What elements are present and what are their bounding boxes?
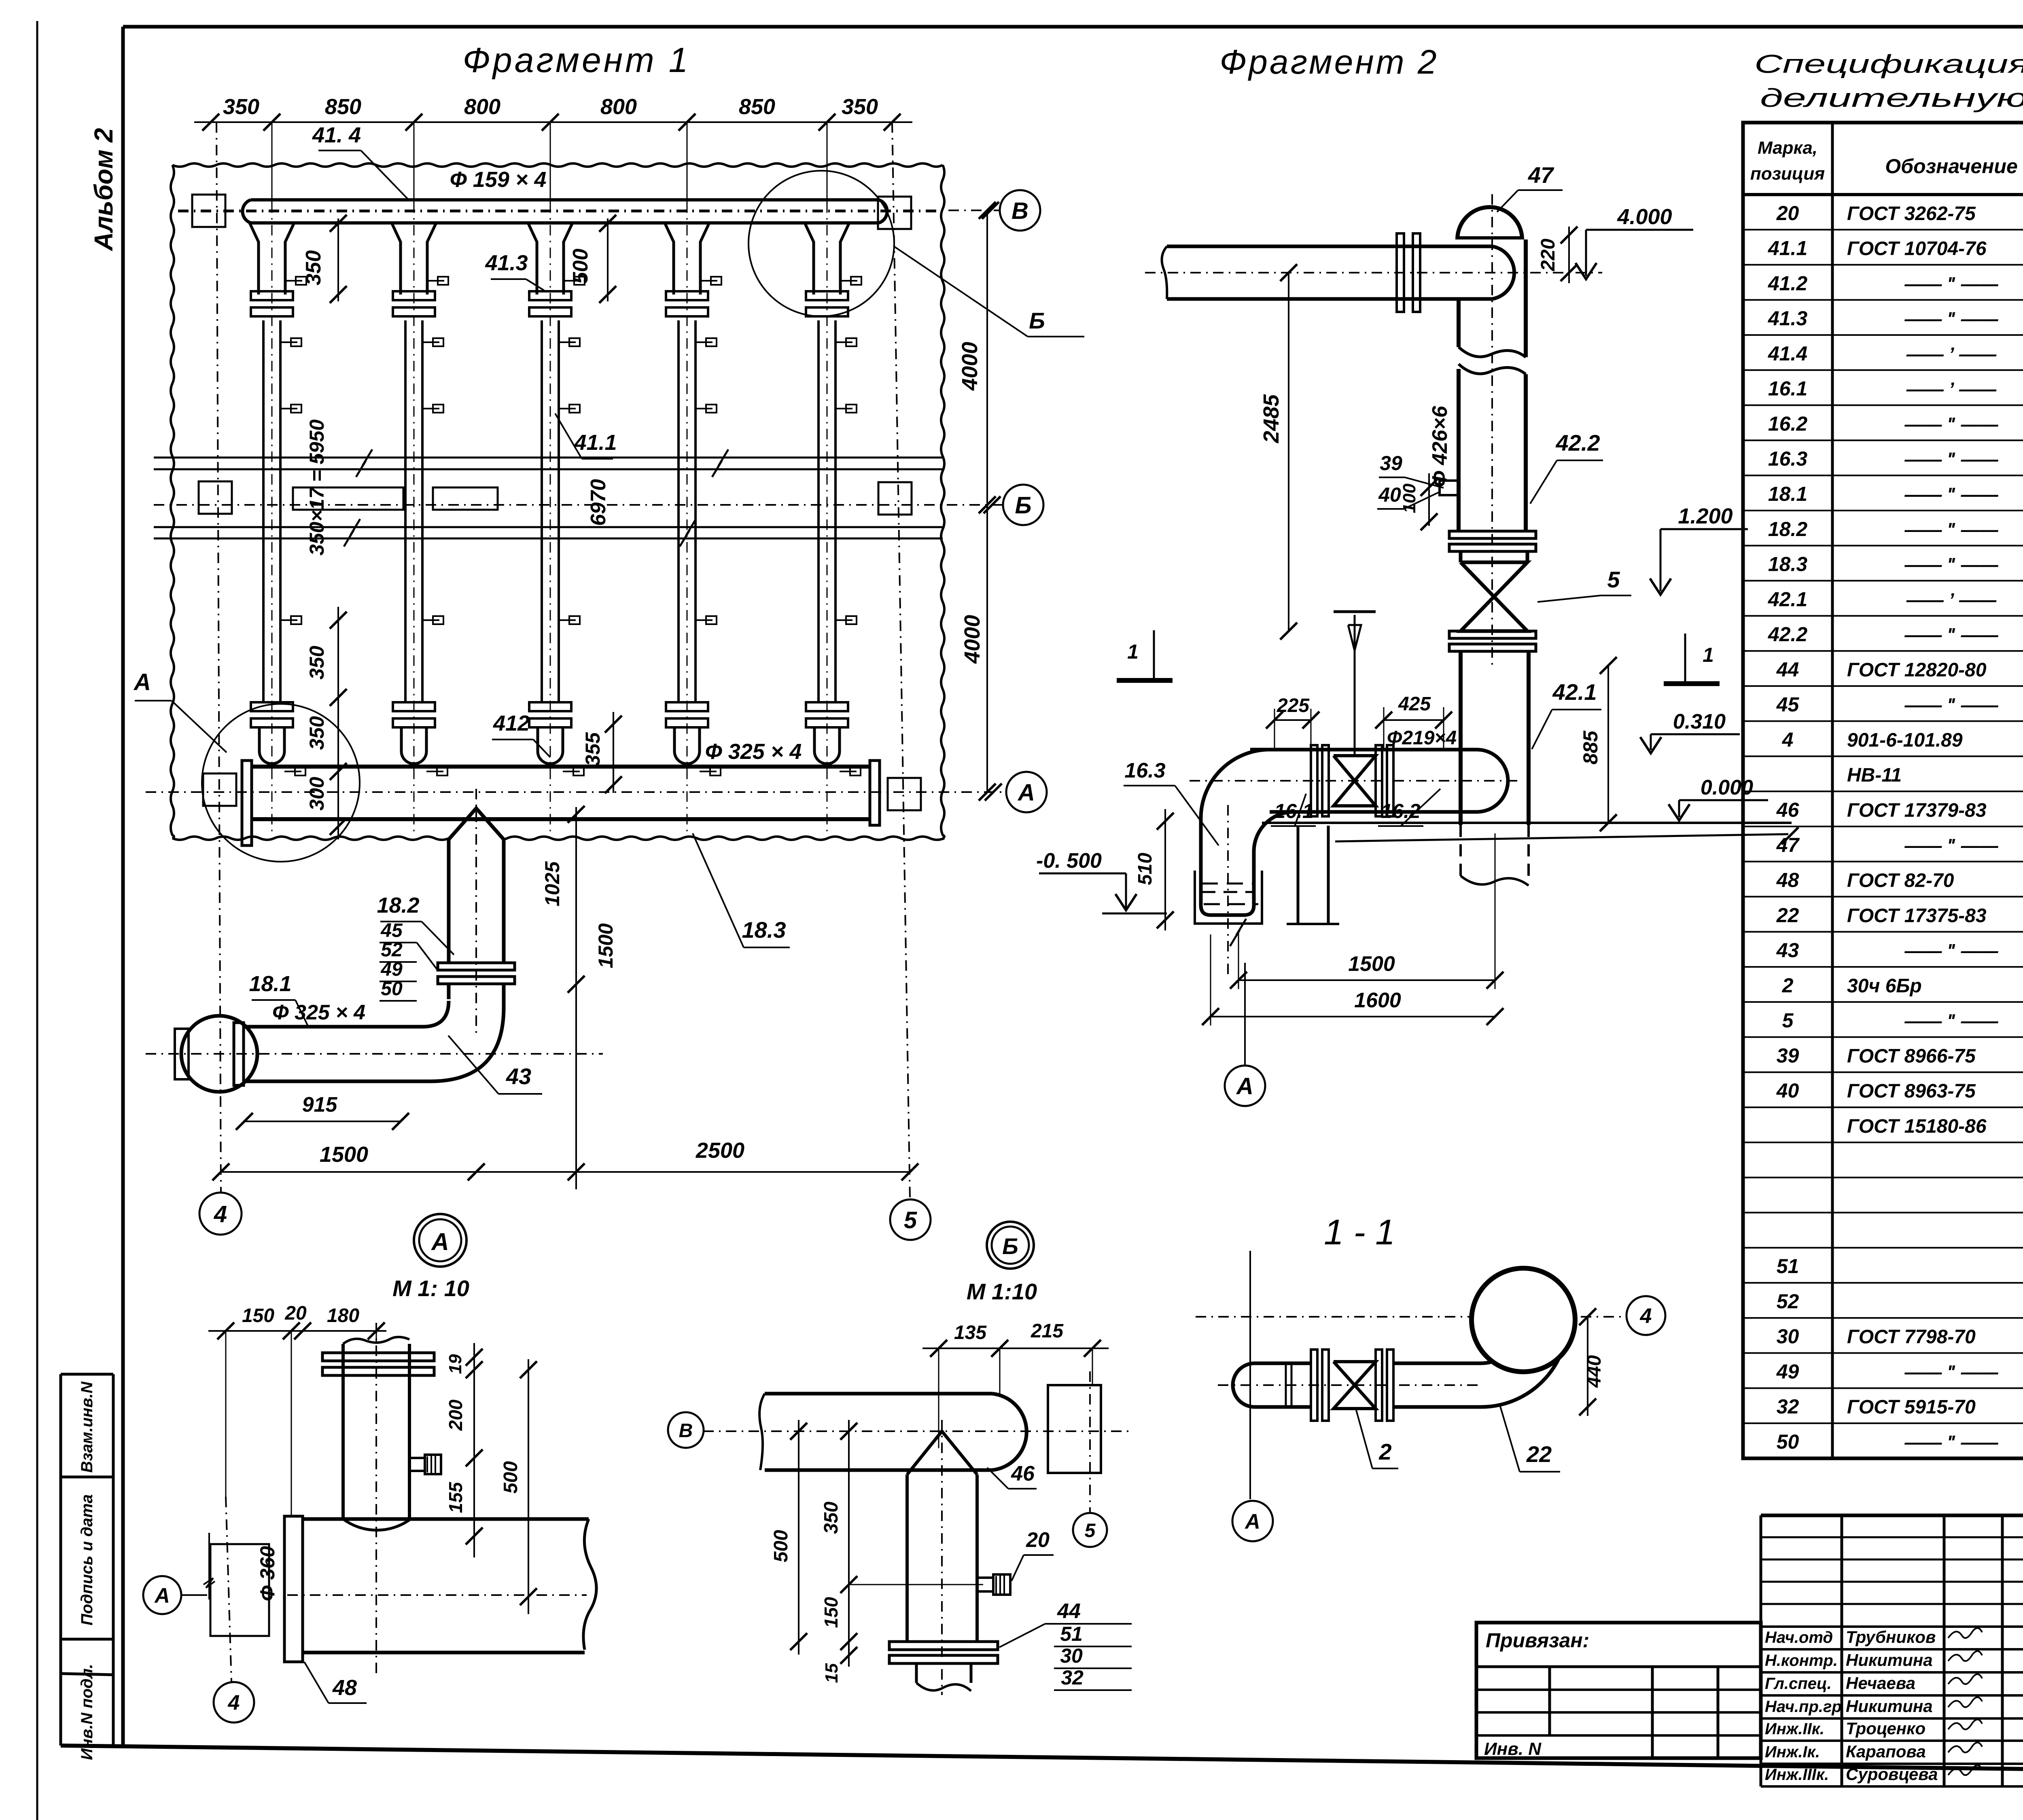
svg-text:30: 30 — [1060, 1644, 1083, 1667]
node riser circle — [1472, 1268, 1575, 1372]
svg-text:2485: 2485 — [1259, 394, 1283, 443]
svg-text:1500: 1500 — [1348, 952, 1395, 976]
svg-text:4000: 4000 — [958, 342, 982, 391]
svg-text:Б: Б — [1015, 492, 1031, 519]
svg-text:0.000: 0.000 — [1701, 776, 1753, 799]
detail B left dims — [770, 1420, 983, 1683]
detail A dim Ф360 — [256, 1546, 279, 1602]
label Ф219×4 — [1387, 727, 1457, 749]
svg-text:850: 850 — [739, 95, 775, 119]
svg-text:41.4: 41.4 — [1768, 342, 1807, 365]
svg-text:Гл.спец.: Гл.спец. — [1765, 1675, 1832, 1693]
left attribute strip — [61, 1374, 113, 1760]
svg-text:Взам.инв.N: Взам.инв.N — [78, 1381, 96, 1473]
svg-text:32: 32 — [1777, 1395, 1799, 1418]
riser dome cap 47 — [1457, 207, 1522, 239]
node valve 2 — [1311, 1350, 1393, 1421]
svg-text:32: 32 — [1061, 1666, 1084, 1689]
svg-text:Обозначение: Обозначение — [1885, 155, 2018, 178]
svg-text:41.3: 41.3 — [485, 251, 528, 275]
svg-text:—— ʺ ——: —— ʺ —— — [1904, 554, 1998, 575]
svg-text:915: 915 — [302, 1093, 338, 1117]
elevation -0.500 — [1036, 849, 1167, 913]
svg-text:20: 20 — [284, 1303, 307, 1324]
column marker 5 — [203, 773, 236, 806]
riser hidden below floor — [1461, 825, 1529, 886]
valve 2 stem — [1334, 612, 1376, 756]
axis Б centreline — [154, 496, 1002, 513]
svg-text:2: 2 — [1378, 1439, 1391, 1464]
svg-text:44: 44 — [1776, 658, 1799, 681]
label stack 45 52 49 50 — [380, 920, 438, 1001]
detail A mating stub — [204, 1533, 269, 1636]
label 41.1 — [555, 413, 617, 459]
svg-text:150: 150 — [242, 1305, 274, 1326]
label Б leader — [893, 246, 1084, 337]
svg-text:16.3: 16.3 — [1768, 447, 1808, 470]
svg-text:—— ʺ ——: —— ʺ —— — [1904, 1361, 1998, 1382]
svg-text:100: 100 — [1400, 483, 1419, 513]
svg-text:Ф 360: Ф 360 — [256, 1546, 279, 1602]
svg-text:—— ʼ ——: —— ʼ —— — [1906, 589, 1997, 610]
svg-text:47: 47 — [1528, 162, 1554, 188]
pipe support — [1287, 826, 1339, 924]
svg-text:18.1: 18.1 — [249, 972, 291, 996]
basin — [1195, 871, 1262, 946]
svg-text:Альбом 2: Альбом 2 — [89, 128, 118, 251]
dim 100 — [1400, 473, 1438, 530]
svg-text:Ф 325 × 4: Ф 325 × 4 — [705, 739, 802, 764]
axis bubble 5 — [890, 1199, 931, 1240]
svg-text:40: 40 — [1776, 1079, 1799, 1102]
svg-text:16.1: 16.1 — [1768, 377, 1807, 400]
detail B tee branch — [907, 1420, 977, 1695]
node axis bubble А — [1232, 1501, 1273, 1541]
svg-text:15: 15 — [822, 1663, 842, 1683]
svg-text:А: А — [133, 669, 151, 695]
walkway beams lower — [154, 519, 943, 547]
pipe 18.3 manifold Ф325 — [242, 761, 880, 845]
svg-text:Б: Б — [1002, 1233, 1018, 1259]
spec table rows — [1768, 202, 2023, 1453]
svg-text:Ф 159 × 4: Ф 159 × 4 — [450, 167, 547, 192]
dim 1025 vertical — [541, 806, 585, 993]
fragment 1 title — [463, 41, 691, 80]
svg-text:48: 48 — [332, 1676, 357, 1700]
svg-text:41.1: 41.1 — [1768, 237, 1807, 260]
fragment 2 title — [1219, 43, 1438, 81]
svg-text:2500: 2500 — [696, 1138, 744, 1163]
svg-text:41. 4: 41. 4 — [312, 123, 361, 147]
dim 355 — [581, 712, 622, 793]
detail B side bolt — [977, 1574, 1010, 1595]
svg-text:5: 5 — [904, 1207, 917, 1233]
label 5 valve — [1537, 567, 1631, 602]
dim 350x17=5950 — [305, 420, 328, 556]
node label 22 — [1499, 1404, 1560, 1472]
svg-text:50: 50 — [1777, 1430, 1799, 1453]
elevation 4.000 — [1576, 205, 1693, 279]
detail A nozzle pipe — [343, 1323, 409, 1677]
detail B scale — [967, 1279, 1037, 1304]
coupling 39 40 — [1377, 452, 1459, 509]
svg-text:—— ʼ ——: —— ʼ —— — [1906, 343, 1997, 364]
riser 42.1 below valve — [1461, 651, 1529, 825]
svg-text:50: 50 — [381, 978, 403, 1000]
svg-text:350: 350 — [842, 95, 878, 119]
svg-text:350: 350 — [821, 1502, 842, 1534]
column marker 4 — [878, 482, 912, 515]
svg-text:2: 2 — [1782, 974, 1794, 997]
label 16.3 — [1124, 759, 1219, 845]
detail B bubble — [987, 1222, 1034, 1269]
dim 6970 — [587, 479, 610, 526]
svg-text:355: 355 — [581, 732, 604, 766]
svg-text:45: 45 — [1776, 693, 1800, 716]
svg-text:ГОСТ 5915-70: ГОСТ 5915-70 — [1847, 1396, 1976, 1418]
svg-text:А: А — [1236, 1073, 1253, 1100]
svg-text:43: 43 — [506, 1064, 531, 1089]
svg-text:200: 200 — [445, 1399, 466, 1431]
svg-text:41.2: 41.2 — [1768, 272, 1808, 295]
svg-text:135: 135 — [954, 1322, 987, 1343]
spec table grid — [1743, 123, 2023, 1458]
svg-text:Привязан:: Привязан: — [1486, 1629, 1589, 1652]
dim 2500 plan — [468, 1138, 918, 1180]
svg-text:39: 39 — [1380, 452, 1402, 475]
svg-text:350: 350 — [302, 250, 325, 286]
svg-text:885: 885 — [1579, 730, 1602, 765]
tee to drop pipe — [449, 808, 504, 963]
svg-text:0.310: 0.310 — [1673, 710, 1726, 733]
svg-text:16.2: 16.2 — [1381, 800, 1421, 822]
label 43 — [448, 1036, 542, 1094]
svg-text:Суровцева: Суровцева — [1846, 1765, 1938, 1784]
walkway plates — [293, 487, 498, 510]
svg-text:18.3: 18.3 — [1768, 553, 1808, 576]
title block staff grid — [1761, 1515, 2023, 1786]
svg-text:М 1:10: М 1:10 — [967, 1279, 1037, 1304]
dim 425 — [1375, 693, 1452, 750]
svg-text:Инж.IIк.: Инж.IIк. — [1765, 1720, 1824, 1738]
section mark 1 left — [1117, 630, 1173, 680]
axis 4 line — [216, 122, 221, 1192]
svg-text:Фрагмент 2: Фрагмент 2 — [1219, 43, 1438, 81]
svg-text:Карапова: Карапова — [1846, 1742, 1926, 1761]
svg-text:позиция: позиция — [1750, 164, 1825, 184]
svg-text:18.3: 18.3 — [742, 917, 786, 943]
label 42.2 — [1530, 430, 1603, 504]
svg-text:20: 20 — [1026, 1528, 1050, 1552]
svg-text:500: 500 — [569, 249, 592, 284]
svg-text:5: 5 — [1607, 567, 1620, 592]
svg-text:800: 800 — [600, 95, 637, 119]
elevation 0.310 — [1640, 710, 1740, 753]
svg-text:46: 46 — [1011, 1462, 1035, 1485]
svg-text:18.1: 18.1 — [1768, 483, 1807, 505]
svg-text:В: В — [1011, 198, 1028, 224]
label Ф325×4 manifold — [705, 739, 802, 764]
svg-text:42.2: 42.2 — [1768, 623, 1808, 646]
svg-text:1: 1 — [1127, 640, 1139, 663]
elevation 1.200 — [1650, 504, 1748, 595]
svg-text:Троценко: Троценко — [1846, 1719, 1925, 1738]
svg-text:42.1: 42.1 — [1552, 679, 1597, 705]
svg-text:18.2: 18.2 — [1768, 518, 1808, 540]
flange pair on header — [1397, 233, 1420, 312]
svg-text:ГОСТ 12820-80: ГОСТ 12820-80 — [1847, 659, 1987, 681]
svg-text:Фрагмент 1: Фрагмент 1 — [463, 41, 691, 80]
svg-text:180: 180 — [327, 1305, 359, 1326]
svg-text:А: А — [1017, 780, 1035, 806]
svg-text:—— ʺ ——: —— ʺ —— — [1904, 449, 1998, 470]
svg-text:-0. 500: -0. 500 — [1036, 849, 1102, 873]
svg-text:49: 49 — [1776, 1360, 1799, 1383]
svg-text:М 1: 10: М 1: 10 — [392, 1275, 469, 1301]
svg-text:ГОСТ 17375-83: ГОСТ 17375-83 — [1847, 905, 1987, 926]
svg-text:45: 45 — [380, 920, 403, 941]
svg-text:Ф 426×6: Ф 426×6 — [1428, 405, 1452, 487]
svg-text:1 - 1: 1 - 1 — [1324, 1212, 1395, 1252]
detail A label 48 — [304, 1662, 367, 1703]
svg-text:ГОСТ 10704-76: ГОСТ 10704-76 — [1847, 238, 1987, 260]
axis 5 line — [892, 122, 910, 1198]
detail A top dims — [208, 1303, 386, 1339]
detail A scale — [392, 1275, 469, 1301]
svg-text:350: 350 — [305, 646, 328, 680]
svg-text:Инж.IIIк.: Инж.IIIк. — [1765, 1766, 1829, 1784]
node axis bubble 4 — [1626, 1296, 1665, 1335]
lateral pipes 41.1 Ф159 with flanges and nozzles — [250, 202, 861, 833]
spec table header — [1750, 130, 2023, 191]
svg-text:А: А — [154, 1584, 170, 1608]
svg-text:6970: 6970 — [587, 479, 610, 526]
dim 4000 upper — [958, 202, 996, 801]
axis bubble 4 — [199, 1193, 242, 1235]
svg-text:155: 155 — [445, 1481, 466, 1513]
detail B axis bubble 5 — [1073, 1513, 1107, 1547]
column marker 6 — [888, 778, 921, 810]
svg-text:425: 425 — [1398, 693, 1431, 715]
detail A axis bubble 4 — [214, 1497, 254, 1723]
svg-text:В: В — [679, 1420, 693, 1441]
svg-text:ГОСТ 82-70: ГОСТ 82-70 — [1847, 870, 1954, 892]
node pipe with cap — [1218, 1363, 1481, 1407]
label Ф426×6 — [1428, 405, 1452, 487]
label Ф325×4 lower — [272, 1001, 365, 1024]
svg-text:5: 5 — [1085, 1520, 1096, 1541]
svg-text:16.1: 16.1 — [1274, 800, 1313, 822]
section 1-1 horizontal pipe Ф219 — [1190, 750, 1521, 812]
detail A right dims — [445, 1343, 537, 1614]
album label — [89, 128, 118, 251]
spec table title — [1754, 49, 2023, 112]
dim 225 — [1266, 695, 1319, 750]
svg-text:43: 43 — [1776, 939, 1799, 962]
svg-text:Никитина: Никитина — [1846, 1697, 1933, 1716]
svg-text:220: 220 — [1537, 239, 1559, 271]
svg-text:—— ʺ ——: —— ʺ —— — [1904, 413, 1998, 434]
detail A bubble — [414, 1214, 467, 1267]
elbow 43 and pipe 18.1 — [234, 1001, 504, 1085]
svg-text:41.3: 41.3 — [1768, 307, 1808, 330]
svg-text:49: 49 — [380, 959, 403, 980]
svg-text:1500: 1500 — [594, 923, 617, 968]
sheet edge line — [36, 21, 38, 1820]
svg-text:—— ʺ ——: —— ʺ —— — [1904, 940, 1998, 961]
svg-text:18.2: 18.2 — [377, 893, 419, 917]
privyazan box — [1476, 1623, 1761, 1759]
detail A main pipe — [287, 1519, 596, 1653]
axis circle В right — [1000, 190, 1040, 231]
svg-text:22: 22 — [1526, 1441, 1552, 1467]
node vertical axis — [1249, 1251, 1251, 1499]
section mark 1 right — [1664, 634, 1720, 684]
svg-text:510: 510 — [1134, 853, 1156, 885]
detail A side bolt — [409, 1455, 441, 1474]
dim 1500 section — [1230, 833, 1503, 989]
label А callout — [133, 669, 227, 752]
axis А centreline — [146, 784, 1005, 801]
detail B labels stack 44 51 30 32 — [999, 1600, 1132, 1690]
svg-text:800: 800 — [464, 95, 500, 119]
elbow 16.3 down — [1201, 750, 1294, 979]
pump circle — [175, 1016, 257, 1092]
detail B right square — [1048, 1371, 1101, 1513]
centreline 18.1 — [146, 1053, 603, 1055]
dim 915 — [236, 1093, 409, 1130]
plan top dimension chain 350-850-800-800-850-350 — [194, 95, 912, 131]
label 41.3 — [485, 251, 544, 290]
riser bottom flange pair — [1449, 531, 1536, 551]
svg-text:Нач.отд: Нач.отд — [1765, 1629, 1833, 1646]
floor line — [1262, 823, 1798, 844]
dim 1500 plan — [212, 1142, 485, 1180]
svg-text:—— ʺ ——: —— ʺ —— — [1904, 1432, 1998, 1453]
svg-text:—— ʺ ——: —— ʺ —— — [1904, 695, 1998, 716]
svg-text:—— ʺ ——: —— ʺ —— — [1904, 519, 1998, 540]
svg-text:16.2: 16.2 — [1768, 412, 1808, 435]
svg-text:42.1: 42.1 — [1768, 588, 1807, 610]
axis В centreline — [178, 202, 999, 219]
svg-text:48: 48 — [1776, 869, 1799, 892]
svg-text:А: А — [430, 1228, 449, 1255]
svg-text:52: 52 — [1777, 1290, 1799, 1313]
svg-text:20: 20 — [1776, 202, 1799, 225]
dim 1500 vertical — [568, 923, 617, 1189]
svg-text:Инв. N: Инв. N — [1484, 1739, 1542, 1759]
detail A extension lines — [226, 1331, 376, 1516]
svg-text:46: 46 — [1776, 799, 1800, 821]
section title 1-1 — [1324, 1212, 1395, 1252]
svg-text:4: 4 — [228, 1691, 240, 1715]
svg-text:215: 215 — [1031, 1320, 1064, 1342]
svg-text:делительную систему градир: делительную систему градирни — [1760, 83, 2023, 112]
label 412 — [492, 711, 550, 757]
svg-text:4.000: 4.000 — [1617, 205, 1672, 229]
svg-text:Трубников: Трубников — [1846, 1627, 1936, 1646]
detail A left flange plate — [284, 1516, 303, 1662]
svg-text:350×17 = 5950: 350×17 = 5950 — [305, 420, 328, 556]
detail B label 20 — [1011, 1528, 1054, 1581]
svg-text:41.1: 41.1 — [574, 430, 617, 455]
svg-text:—— ʺ ——: —— ʺ —— — [1904, 624, 1998, 645]
detail Б callout circle — [749, 171, 894, 316]
valve 2 with flanges — [1311, 745, 1393, 816]
svg-text:1025: 1025 — [541, 861, 564, 906]
label Ф159×4 header — [450, 167, 547, 192]
dim 350 top — [302, 215, 347, 303]
svg-text:4: 4 — [1782, 728, 1794, 751]
dim 510 — [1134, 809, 1174, 930]
svg-text:Спецификация материалов на в: Спецификация материалов на водораспре- — [1754, 49, 2023, 78]
svg-text:1500: 1500 — [320, 1142, 368, 1167]
svg-text:1: 1 — [1703, 644, 1714, 666]
svg-text:—— ʺ ——: —— ʺ —— — [1904, 835, 1998, 856]
svg-text:350: 350 — [305, 716, 328, 750]
svg-text:500: 500 — [770, 1530, 792, 1562]
svg-text:39: 39 — [1777, 1044, 1799, 1067]
node axis line to bubble 4 — [1196, 1316, 1625, 1318]
svg-text:40: 40 — [1378, 483, 1401, 506]
detail B bottom flanges — [889, 1642, 998, 1691]
column marker 1 — [192, 195, 225, 227]
elevation 0.000 — [1669, 776, 1768, 820]
detail B top dims — [922, 1320, 1109, 1448]
svg-text:—— ʺ ——: —— ʺ —— — [1904, 1011, 1998, 1032]
svg-text:4: 4 — [1640, 1305, 1652, 1328]
svg-text:Ф 325 × 4: Ф 325 × 4 — [272, 1001, 365, 1024]
svg-text:19: 19 — [445, 1354, 465, 1374]
node label 2 — [1356, 1410, 1398, 1468]
svg-text:4: 4 — [214, 1201, 227, 1227]
column marker 3 — [199, 481, 232, 514]
svg-text:Н.контр.: Н.контр. — [1765, 1652, 1838, 1670]
svg-text:Никитина: Никитина — [1846, 1651, 1933, 1670]
svg-text:—— ʺ ——: —— ʺ —— — [1904, 484, 1998, 505]
svg-text:30: 30 — [1777, 1325, 1799, 1348]
column marker 2 — [878, 197, 911, 229]
node pipe after valve — [1393, 1363, 1481, 1407]
node dim 440 — [1579, 1308, 1605, 1416]
svg-text:412: 412 — [493, 711, 530, 735]
label 42.1 — [1532, 679, 1601, 749]
dim 2485 — [1259, 264, 1297, 640]
svg-text:Б: Б — [1029, 308, 1045, 333]
pipe 18.2 lower — [449, 983, 504, 1009]
title block staff names — [1765, 1627, 1982, 1784]
dim 500 vertical — [569, 215, 616, 303]
flange pair below valve — [1449, 631, 1536, 651]
svg-text:5: 5 — [1782, 1009, 1794, 1032]
svg-text:ГОСТ 8966-75: ГОСТ 8966-75 — [1847, 1045, 1976, 1067]
svg-text:Нечаева: Нечаева — [1846, 1674, 1915, 1693]
svg-text:30ч 6Бр: 30ч 6Бр — [1847, 975, 1922, 997]
detail B label 46 — [987, 1462, 1037, 1489]
svg-text:52: 52 — [381, 939, 403, 961]
plan extension lines — [272, 122, 827, 212]
svg-text:ГОСТ 8963-75: ГОСТ 8963-75 — [1847, 1081, 1976, 1102]
walkway beams upper — [154, 449, 943, 477]
svg-text:Нач.пр.гр: Нач.пр.гр — [1765, 1698, 1842, 1716]
svg-text:НВ-11: НВ-11 — [1847, 765, 1902, 786]
svg-text:Инж.Iк.: Инж.Iк. — [1765, 1743, 1820, 1761]
flange pair on drop pipe 18.2 — [438, 963, 515, 984]
svg-text:4000: 4000 — [960, 615, 984, 664]
svg-text:850: 850 — [325, 95, 361, 119]
centreline 18.2 vertical — [475, 789, 477, 1036]
svg-text:1600: 1600 — [1354, 989, 1401, 1012]
